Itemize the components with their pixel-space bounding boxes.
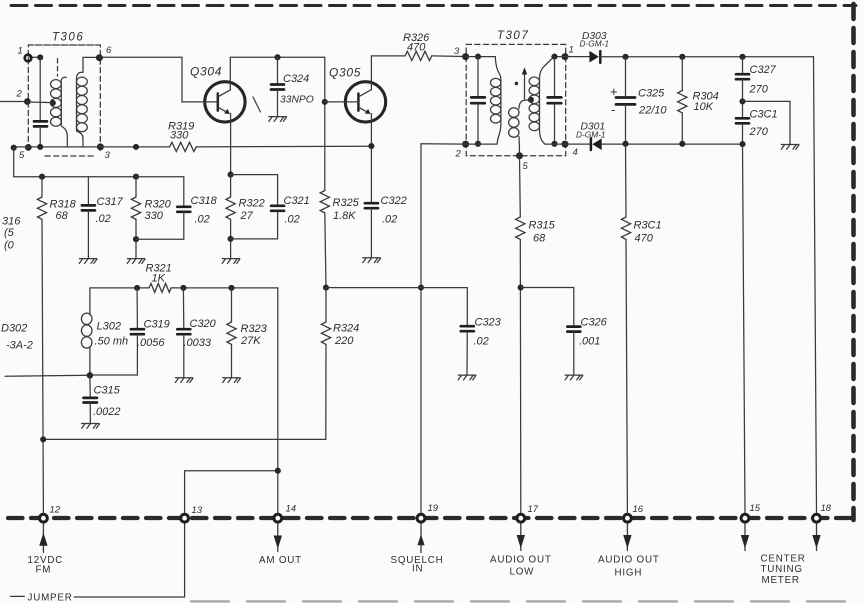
wire T306 secondary top to pin 6	[83, 56, 99, 58]
svg-text:AUDIO OUT: AUDIO OUT	[598, 555, 660, 566]
svg-text:R320: R320	[145, 199, 172, 211]
wire capacitor branch vertical lower	[39, 127, 41, 147]
svg-text:C319: C319	[144, 319, 170, 331]
svg-text:1: 1	[18, 46, 23, 57]
svg-text:6: 6	[106, 45, 112, 56]
wire T306 pin 2 to primary tap	[27, 101, 52, 104]
node junction C325 top	[622, 54, 628, 60]
transformer T307 dashed box	[466, 44, 566, 155]
board edge connector dashed line	[8, 516, 852, 520]
ground below C323	[458, 375, 476, 380]
node junction T307 internal cap left top	[475, 54, 481, 60]
svg-text:R322: R322	[239, 198, 265, 210]
capacitor C319	[90, 288, 144, 375]
terminal 15	[741, 514, 749, 522]
wire lower-left rail (L302 to terminal 14 riser)	[90, 288, 278, 513]
resistor R319	[170, 142, 197, 151]
svg-text:AUDIO OUT: AUDIO OUT	[490, 555, 552, 566]
node junction R304 top	[679, 54, 685, 60]
svg-text:Q305: Q305	[329, 66, 361, 80]
wire capacitor branch vertical upper	[39, 57, 41, 121]
svg-text:.02: .02	[474, 336, 489, 348]
svg-text:C3C1: C3C1	[750, 109, 778, 121]
node junction T307 internal cap left bottom	[475, 141, 481, 147]
svg-text:C326: C326	[581, 317, 608, 329]
svg-text:.02: .02	[195, 214, 210, 226]
node junction C3C1 bottom	[739, 141, 745, 147]
node junction Q305 emitter / bias rail	[368, 143, 374, 149]
T307 tuning arrow	[522, 67, 527, 99]
svg-text:1K: 1K	[152, 273, 166, 285]
T307 secondary winding (right)	[529, 57, 554, 145]
wire D301 to bottom rail	[602, 143, 743, 145]
terminal 13	[181, 514, 189, 522]
T306 pin 6 terminal	[96, 54, 103, 61]
ground below R323	[223, 378, 241, 383]
svg-text:2: 2	[455, 149, 462, 160]
resistor R304	[678, 57, 687, 144]
T307 internal capacitor left	[471, 57, 485, 144]
capacitor C317	[82, 177, 95, 259]
wire left drop from bias rail to R318 rail	[14, 148, 136, 177]
svg-text:C322: C322	[381, 195, 407, 207]
node junction C324 top	[274, 54, 280, 60]
terminal 17 stem and down arrow (AUDIO OUT LOW)	[517, 524, 525, 551]
wire R315 bottom to terminal 17	[519, 239, 522, 512]
svg-text:R3C1: R3C1	[634, 220, 662, 232]
T307 coupling winding (center)	[509, 100, 530, 156]
T307 polarity dot	[515, 82, 518, 85]
terminal 12 stem and up arrow (12VDC FM)	[39, 524, 47, 553]
wire T307 pin 4 to diode D301	[565, 143, 590, 145]
node junction C325 bottom	[622, 141, 628, 147]
svg-text:FM: FM	[36, 565, 52, 576]
T306 primary tap junction dot	[50, 100, 56, 106]
svg-text:3: 3	[105, 150, 111, 161]
wire bias rail from T306 bottom to Q305 emitter (left part)	[14, 146, 170, 148]
svg-text:.001: .001	[579, 336, 600, 348]
svg-text:C318: C318	[191, 195, 218, 207]
svg-text:.0056: .0056	[137, 337, 165, 349]
node junction cap branch at bias rail	[37, 144, 43, 150]
capacitor C324	[271, 57, 284, 116]
wire jumper from terminal 13 down to jumper tag	[74, 524, 184, 597]
inductor L302	[81, 312, 92, 375]
node junction R315 bottom / C326 branch	[518, 284, 524, 290]
svg-text:C315: C315	[94, 385, 121, 397]
wire T307 bottom-left rail pin2 to primary	[466, 143, 497, 145]
svg-text:13: 13	[192, 505, 203, 516]
svg-text:270: 270	[749, 126, 769, 138]
wire to Q305 base	[325, 101, 346, 103]
svg-text:HIGH: HIGH	[615, 568, 643, 579]
svg-text:22/10: 22/10	[638, 105, 667, 117]
capacitor C318 (parallel with R320)	[136, 177, 190, 240]
capacitor C3C1	[736, 118, 749, 144]
svg-text:.50 mh: .50 mh	[95, 336, 129, 348]
wire bias rail (right part to Q305 emitter)	[196, 145, 371, 148]
T307 pin 3 terminal	[462, 53, 469, 60]
svg-text:5: 5	[19, 150, 25, 161]
wire R325 bottom to lower rail	[325, 213, 326, 288]
node junction T307 internal cap right bottom	[551, 141, 557, 147]
jumper tag dash	[10, 595, 24, 597]
T307 pin 2 terminal	[462, 141, 469, 148]
resistor R326	[405, 51, 432, 60]
wire T307 pin 2 to squelch riser	[421, 143, 466, 145]
svg-text:C324: C324	[283, 73, 309, 85]
wire T306 pin 6 to Q304 base	[99, 57, 204, 102]
svg-text:27: 27	[240, 210, 254, 222]
border frame bottom faint dashed line	[191, 600, 860, 602]
wire top rail corner down to Q305 base and R325	[324, 57, 326, 190]
svg-text:+: +	[610, 84, 618, 99]
ground below R320	[127, 259, 145, 264]
T306 pin 3 terminal	[97, 143, 104, 150]
node junction R324 top / R325 bottom	[323, 285, 329, 291]
T306 pin 1 terminal	[25, 55, 32, 62]
node junction T307 internal cap right top	[551, 54, 557, 60]
T307 primary winding	[491, 57, 501, 145]
ground below C320	[175, 378, 193, 383]
svg-text:27K: 27K	[240, 335, 261, 347]
svg-text:10K: 10K	[694, 101, 714, 113]
svg-text:(5: (5	[4, 227, 15, 239]
svg-text:68: 68	[533, 233, 546, 245]
ground at right branch	[781, 145, 799, 150]
wire R318 bottom long run to terminal 12	[42, 219, 43, 512]
T307 internal capacitor right	[548, 57, 562, 144]
T307 pin 1 terminal	[562, 53, 569, 60]
ground below R322	[222, 259, 240, 264]
svg-text:33NPO: 33NPO	[280, 95, 314, 106]
wire left stub to T306 pin 2	[0, 101, 27, 103]
svg-text:.02: .02	[285, 214, 300, 226]
svg-text:METER: METER	[762, 575, 800, 586]
svg-text:R318: R318	[50, 199, 77, 211]
svg-text:270: 270	[749, 84, 769, 96]
ground below C322	[363, 258, 381, 263]
svg-text:68: 68	[56, 210, 69, 222]
wire C327/C3C1 junction to ground branch	[743, 101, 791, 144]
transistor Q304	[205, 82, 246, 122]
wire T307 bottom-right rail to pin 4	[545, 143, 565, 145]
svg-text:R315: R315	[529, 220, 556, 232]
resistor R322	[226, 175, 235, 259]
svg-text:JUMPER: JUMPER	[28, 593, 73, 603]
svg-text:.0033: .0033	[184, 337, 212, 349]
resistor R318	[37, 177, 46, 220]
svg-text:19: 19	[428, 503, 439, 514]
svg-text:T307: T307	[497, 30, 529, 42]
svg-text:TUNING: TUNING	[761, 564, 803, 575]
svg-text:15: 15	[750, 503, 761, 514]
svg-text:C323: C323	[475, 317, 502, 329]
svg-text:17: 17	[528, 504, 539, 515]
svg-text:R324: R324	[333, 323, 359, 335]
wire R326 to T307 pin 3	[432, 55, 466, 58]
terminal 12	[40, 514, 48, 522]
T307 winding tap junction dot	[528, 97, 534, 103]
border frame top dashed line	[11, 4, 856, 7]
terminal 18	[813, 514, 821, 522]
terminal 14	[274, 514, 282, 522]
svg-text:220: 220	[334, 335, 354, 347]
svg-text:1: 1	[569, 45, 574, 56]
terminal 15 stem and down arrow (CENTER TUNING METER)	[741, 524, 749, 551]
wire T307 pin 5 down to R315	[519, 156, 522, 217]
node junction C327 top	[739, 54, 745, 60]
svg-text:C327: C327	[750, 64, 777, 76]
resistor R320	[131, 177, 140, 259]
ground below C326	[565, 375, 583, 380]
capacitor C315	[84, 375, 97, 423]
node junction R304 bottom	[679, 141, 685, 147]
T307 pin 5 terminal	[516, 152, 523, 159]
svg-text:16: 16	[633, 504, 644, 515]
node junction R318 top	[39, 174, 45, 180]
node junction R320 top	[133, 174, 139, 180]
resistor R321	[149, 284, 171, 293]
resistor R3C1	[621, 144, 630, 513]
svg-text:D302: D302	[1, 323, 27, 335]
svg-text:D·GM-1: D·GM-1	[580, 39, 610, 49]
svg-text:-: -	[611, 102, 615, 117]
wire T307 top-left rail pin3 to primary	[466, 56, 496, 58]
svg-text:(0: (0	[4, 240, 15, 252]
ground below C317	[79, 259, 97, 264]
diode D301	[591, 138, 602, 150]
transformer T306 dashed box	[28, 45, 100, 156]
terminal 19 stem and up arrow (SQUELCH IN)	[417, 524, 424, 553]
wire T307 top-right rail to pin 1	[552, 56, 565, 58]
svg-text:T306: T306	[52, 32, 84, 44]
node junction L302 / C315	[87, 372, 93, 378]
wire R324 rail to C323	[326, 288, 467, 326]
capacitor C327	[736, 57, 749, 118]
svg-text:D-GM-1: D-GM-1	[576, 130, 606, 140]
svg-text:.02: .02	[382, 214, 397, 226]
svg-text:18: 18	[821, 503, 832, 514]
svg-text:Q304: Q304	[190, 65, 222, 79]
node junction R320 branch at bias rail	[133, 144, 139, 150]
svg-text:470: 470	[407, 42, 426, 54]
svg-text:316: 316	[2, 216, 21, 228]
ground below C324	[269, 117, 287, 122]
terminal 18 stem and down arrow (CENTER TUNING METER)	[812, 524, 820, 551]
svg-text:C325: C325	[638, 88, 665, 100]
terminal 17	[517, 514, 525, 522]
svg-text:R323: R323	[241, 323, 268, 335]
wire top rail corner down to terminal 18	[814, 57, 817, 513]
resistor R323	[227, 288, 236, 378]
svg-text:12: 12	[50, 505, 61, 516]
ground below C315	[82, 424, 100, 429]
wire Q305 collector to R326	[371, 56, 405, 90]
capacitor C322	[365, 203, 378, 257]
node junction left vertical riser at bias rail	[11, 145, 17, 151]
capacitor C326	[567, 327, 580, 375]
svg-text:330: 330	[145, 210, 164, 222]
terminal 19	[417, 514, 425, 522]
transistor Q305	[345, 82, 385, 122]
T306 secondary winding (right coil)	[77, 57, 88, 146]
svg-text:3: 3	[454, 46, 460, 57]
node junction between C327 and C3C1	[739, 98, 745, 104]
node junction C320 top	[180, 285, 186, 291]
border frame right dashed line	[851, 4, 856, 520]
wire D303 to top rail	[600, 56, 813, 58]
svg-text:LOW: LOW	[510, 567, 535, 578]
node junction C319 top	[134, 285, 140, 291]
svg-text:C320: C320	[190, 318, 217, 330]
node junction squelch riser / R324 rail	[418, 284, 424, 290]
svg-text:L302: L302	[97, 321, 121, 333]
capacitor C320	[177, 288, 190, 378]
capacitor C323	[461, 326, 474, 375]
terminal 16 stem and down arrow (AUDIO OUT HIGH)	[623, 524, 631, 551]
wire C3C1 bottom to terminal 15	[743, 144, 746, 513]
T306 pin 2 terminal	[24, 98, 31, 105]
svg-text:C317: C317	[97, 196, 124, 208]
stray slash mark	[253, 97, 261, 112]
capacitor C325 electrolytic	[616, 57, 635, 144]
svg-text:470: 470	[635, 233, 654, 245]
svg-text:C321: C321	[284, 195, 310, 207]
wire Q304 collector up to top rail	[230, 57, 324, 90]
T306 pin 5 terminal	[25, 144, 32, 151]
T306 core dashed line	[57, 59, 59, 77]
node junction long wire / terminal 12 column	[40, 436, 46, 442]
wire Q305 emitter down	[370, 114, 372, 203]
svg-text:1.8K: 1.8K	[333, 210, 356, 222]
node junction at top of T306 tuning capacitor	[37, 54, 43, 60]
T307 pin 4 terminal	[562, 141, 569, 148]
node junction R323 top	[228, 285, 234, 291]
svg-text:5: 5	[523, 161, 529, 172]
svg-text:4: 4	[573, 147, 578, 158]
wire T306 pin 1 to capacitor branch	[28, 56, 40, 58]
terminal 16	[624, 514, 632, 522]
svg-text:2: 2	[16, 89, 23, 100]
wire Q304 emitter down to R322	[230, 114, 232, 175]
node junction R320 bottom	[133, 236, 139, 242]
svg-text:IN: IN	[412, 564, 423, 575]
svg-text:14: 14	[286, 504, 297, 515]
svg-text:330: 330	[170, 130, 189, 142]
svg-text:.0022: .0022	[93, 406, 121, 418]
svg-text:.02: .02	[96, 213, 111, 225]
node junction R322 bottom	[228, 236, 234, 242]
capacitor C321 (parallel with R322)	[231, 175, 285, 239]
wire T307 pin 1 to diode D303	[565, 56, 589, 58]
wire squelch riser down to terminal 19	[420, 144, 422, 513]
node junction jumper / terminal 14 column	[275, 468, 281, 474]
wire R315 node to C326	[521, 288, 574, 327]
svg-text:AM OUT: AM OUT	[259, 555, 302, 566]
svg-text:R325: R325	[333, 197, 360, 209]
terminal 14 stem and down arrow (AM OUT)	[274, 524, 282, 552]
svg-text:CENTER: CENTER	[761, 554, 806, 565]
wire R324 bottom long run to terminal 12 column	[43, 344, 326, 439]
node junction Q305 base tap	[322, 99, 328, 105]
resistor R324	[321, 288, 330, 345]
node junction R322 top	[228, 172, 234, 178]
diode D303	[589, 51, 600, 63]
svg-text:-3A-2: -3A-2	[6, 340, 33, 352]
wire D302 stub from left edge to L302 node	[5, 375, 90, 376]
resistor R325	[320, 191, 329, 213]
T306 primary winding (left coil)	[51, 77, 68, 147]
wire jumper riser from terminal 13 up to terminal 14 column	[185, 471, 278, 513]
resistor R315	[516, 217, 525, 239]
T306 tuning capacitor	[34, 121, 47, 126]
